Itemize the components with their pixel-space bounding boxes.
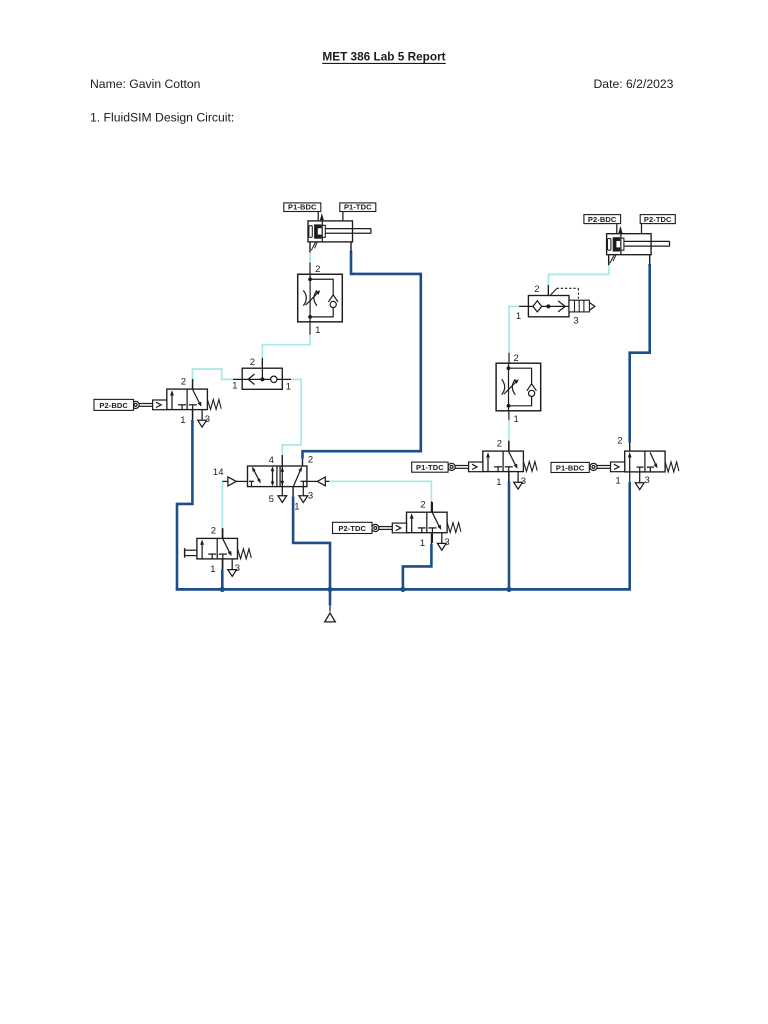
svg-text:1: 1 xyxy=(615,475,620,486)
svg-text:14: 14 xyxy=(213,467,224,478)
svg-text:3: 3 xyxy=(645,475,650,486)
3/2 roller valve P1-BDC (shown actuated) xyxy=(590,436,679,490)
3/2 roller valve P1-TDC xyxy=(448,438,537,489)
shuttle valve (OR) xyxy=(232,357,291,392)
svg-text:5: 5 xyxy=(269,494,274,505)
svg-text:2: 2 xyxy=(534,284,539,295)
label plate P2-BDC xyxy=(94,399,134,410)
junction node at manual valve drop xyxy=(220,587,225,592)
wire manual valve port 1 to supply line xyxy=(221,559,223,590)
svg-text:P1-BDC: P1-BDC xyxy=(288,203,317,212)
wire FC1 port 1 to shuttle valve port 2 xyxy=(262,322,310,368)
wire P2-BDC port 2 to shuttle valve left port 1 xyxy=(192,369,233,389)
cylinder A1 (double-acting, P1) xyxy=(308,211,371,252)
compressed air supply source xyxy=(325,589,336,622)
label plate P2-TDC xyxy=(333,522,373,533)
cylinder A2 (double-acting, P2) xyxy=(607,224,670,265)
svg-text:1: 1 xyxy=(516,311,521,322)
wire cylinder 1 right port to 5/2 valve port 2 (working line) xyxy=(303,242,421,466)
label P2-BDC (cylinder 2 retracted sensor tag) xyxy=(584,215,621,224)
svg-text:P2-TDC: P2-TDC xyxy=(338,524,366,533)
quick exhaust valve (near cylinder 2) xyxy=(516,284,595,327)
svg-text:3: 3 xyxy=(573,316,578,327)
5/2 pneumatically piloted valve xyxy=(213,454,329,512)
supply distribution line (main manifold) xyxy=(176,588,631,591)
svg-text:P1-BDC: P1-BDC xyxy=(556,463,585,472)
label plate P1-TDC xyxy=(412,462,448,472)
junction node at supply source xyxy=(327,587,332,592)
svg-text:Name: Gavin Cotton: Name: Gavin Cotton xyxy=(90,77,200,91)
wire quick exhaust port 2 to cylinder 2 left port xyxy=(548,255,609,296)
svg-text:Date: 6/2/2023: Date: 6/2/2023 xyxy=(594,77,674,91)
svg-text:2: 2 xyxy=(617,436,622,447)
3/2 roller valve P2-TDC xyxy=(372,499,461,550)
wire quick exhaust port 1 down through FC2 to P1-TDC port 2 xyxy=(509,306,519,451)
3/2 roller valve P2-BDC (left) xyxy=(132,376,221,427)
wire cylinder 2 right port to P1-BDC port 2 (working line) xyxy=(630,253,650,451)
svg-text:3: 3 xyxy=(308,491,313,502)
svg-text:1: 1 xyxy=(294,501,299,512)
wire P2-BDC port 1 down to supply line left end xyxy=(177,410,192,590)
svg-text:P2-BDC: P2-BDC xyxy=(588,215,617,224)
one-way flow control valve FC1 (under cylinder 1) xyxy=(298,264,343,336)
label plate P1-BDC xyxy=(551,462,589,472)
one-way flow control valve FC2 (right branch) xyxy=(496,353,541,425)
junction node at P2-TDC drop xyxy=(400,587,405,592)
svg-text:P1-TDC: P1-TDC xyxy=(416,463,444,472)
wire P1-BDC port 1 down to supply line right end xyxy=(629,472,631,590)
svg-text:1. FluidSIM Design Circuit:: 1. FluidSIM Design Circuit: xyxy=(90,110,234,124)
svg-text:P2-TDC: P2-TDC xyxy=(644,215,672,224)
wire shuttle valve right port 1 to 5/2 valve port 4 xyxy=(282,379,301,466)
svg-text:P1-TDC: P1-TDC xyxy=(344,203,372,212)
wire P1-TDC port 1 to supply line xyxy=(508,471,510,589)
svg-text:1: 1 xyxy=(232,381,237,392)
label P2-TDC (cylinder 2 extended sensor tag) xyxy=(640,215,675,224)
wire 5/2 valve port 1 to supply junction xyxy=(293,487,330,590)
junction node at P1-TDC drop xyxy=(506,587,511,592)
wire manual valve port 2 to 5/2 valve pilot port 14 xyxy=(221,481,223,538)
label P1-TDC (cylinder 1 extended sensor tag) xyxy=(340,203,376,212)
wire cyl1 left port to FC1 port 2 xyxy=(309,242,311,274)
3/2 manual pushbutton valve (start) xyxy=(185,526,252,577)
svg-text:1: 1 xyxy=(286,381,291,392)
svg-text:P2-BDC: P2-BDC xyxy=(99,401,128,410)
title: MET 386 Lab 5 Report xyxy=(322,50,446,64)
svg-text:2: 2 xyxy=(308,454,313,465)
wire P2-TDC port 2 to 5/2 valve pilot port 12 xyxy=(329,481,431,512)
svg-text:2: 2 xyxy=(250,357,255,368)
svg-text:4: 4 xyxy=(269,455,274,466)
wire P2-TDC port 1 to supply line xyxy=(403,534,432,590)
svg-text:MET 386 Lab 5 Report: MET 386 Lab 5 Report xyxy=(322,50,445,64)
label P1-BDC (cylinder 1 retracted sensor tag) xyxy=(284,203,321,212)
